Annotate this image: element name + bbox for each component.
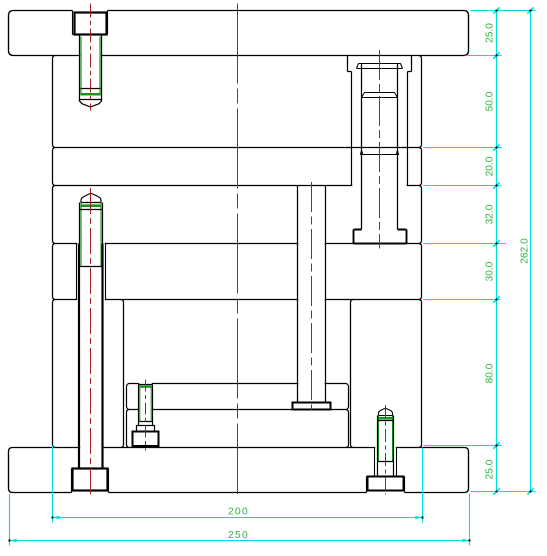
screw B3 shank [139, 385, 153, 426]
bolt B4 head [368, 477, 404, 491]
bolt B1 tip [80, 100, 102, 108]
svg-text:20.0: 20.0 [485, 156, 496, 176]
guide bushing bore mouth [357, 64, 403, 69]
bolt B2 clearance hole in support plate [77, 244, 106, 300]
bolt B2 centerline [90, 188, 92, 497]
bolt B1 head [75, 13, 107, 35]
plate C [53, 186, 422, 244]
bolt B1 shank [80, 35, 102, 102]
bottom clamping plate [9, 448, 469, 493]
svg-text:25.0: 25.0 [485, 459, 496, 479]
bolt B4 clearance hole [375, 448, 397, 477]
bolt B1 thread lines [81, 37, 100, 94]
bolt B2 shank lower [79, 244, 103, 469]
bolt B1 thread band [80, 93, 100, 96]
guide pin flange [354, 230, 407, 244]
plate A (cavity plate) [53, 56, 422, 148]
bolt B4 head counterbore [367, 477, 405, 493]
bolt B4 thread band [378, 417, 393, 420]
right spacer rail [351, 300, 422, 448]
dimension line (stack dims) [496, 11, 498, 492]
ejector retainer plate [127, 384, 349, 410]
screw B3 collar [137, 426, 155, 432]
guide pin body [362, 64, 398, 230]
dimension line 250 [10, 540, 470, 542]
guide pin hole entry chamfer [362, 154, 398, 156]
knockout gaps where holes interrupt plate boundary lines [77, 54, 407, 449]
dimension tick slashes [493, 7, 533, 494]
screw B3 centerline [145, 380, 147, 451]
main mold centerline [237, 4, 239, 495]
return pin P1 centerline [311, 182, 313, 410]
svg-text:262.0: 262.0 [520, 238, 531, 264]
svg-text:25.0: 25.0 [485, 23, 496, 43]
extension lines bottom [52, 446, 54, 523]
bolt B4 shank [378, 416, 394, 477]
svg-text:200: 200 [228, 507, 249, 518]
bolt B1 counterbore [73, 11, 108, 35]
top clamping plate [9, 11, 469, 56]
svg-text:80.0: 80.0 [485, 363, 496, 383]
guide pin centerline [379, 50, 381, 249]
guide bushing body and B-plate hole walls [352, 72, 408, 186]
svg-text:32.0: 32.0 [485, 204, 496, 224]
plate B [53, 148, 422, 186]
bolt B4 thread lines [379, 416, 393, 462]
bolt B4 dome tip [379, 409, 393, 416]
bolt B2 shank upper [80, 203, 103, 267]
svg-text:30.0: 30.0 [485, 261, 496, 281]
screw B3 thread lines [140, 386, 151, 422]
bolt B2 thread lines [81, 203, 101, 267]
return pin P1 shaft [298, 186, 326, 403]
bolt B2 head [73, 469, 108, 491]
bolt B4 centerline [385, 405, 387, 495]
guide pin top face [362, 93, 398, 98]
bolt B2 dome tip [81, 193, 101, 202]
dimension line 200 [53, 517, 423, 519]
svg-text:250: 250 [228, 530, 249, 541]
guide bushing flange [348, 56, 412, 72]
return pin P1 flange [293, 403, 331, 410]
svg-text:50.0: 50.0 [485, 91, 496, 111]
ejector base plate [127, 410, 349, 448]
bolt B2 thread band [81, 204, 102, 207]
dimension arrowheads bottom [10, 516, 470, 543]
support plate D [53, 244, 422, 300]
screw B3 thread band [139, 385, 152, 387]
bolt B1 centerline [90, 4, 92, 111]
bolt B2 head counterbore [72, 469, 109, 493]
left spacer rail [53, 300, 124, 448]
dimension line (overall 262) [530, 11, 532, 492]
screw B3 head [133, 432, 159, 447]
